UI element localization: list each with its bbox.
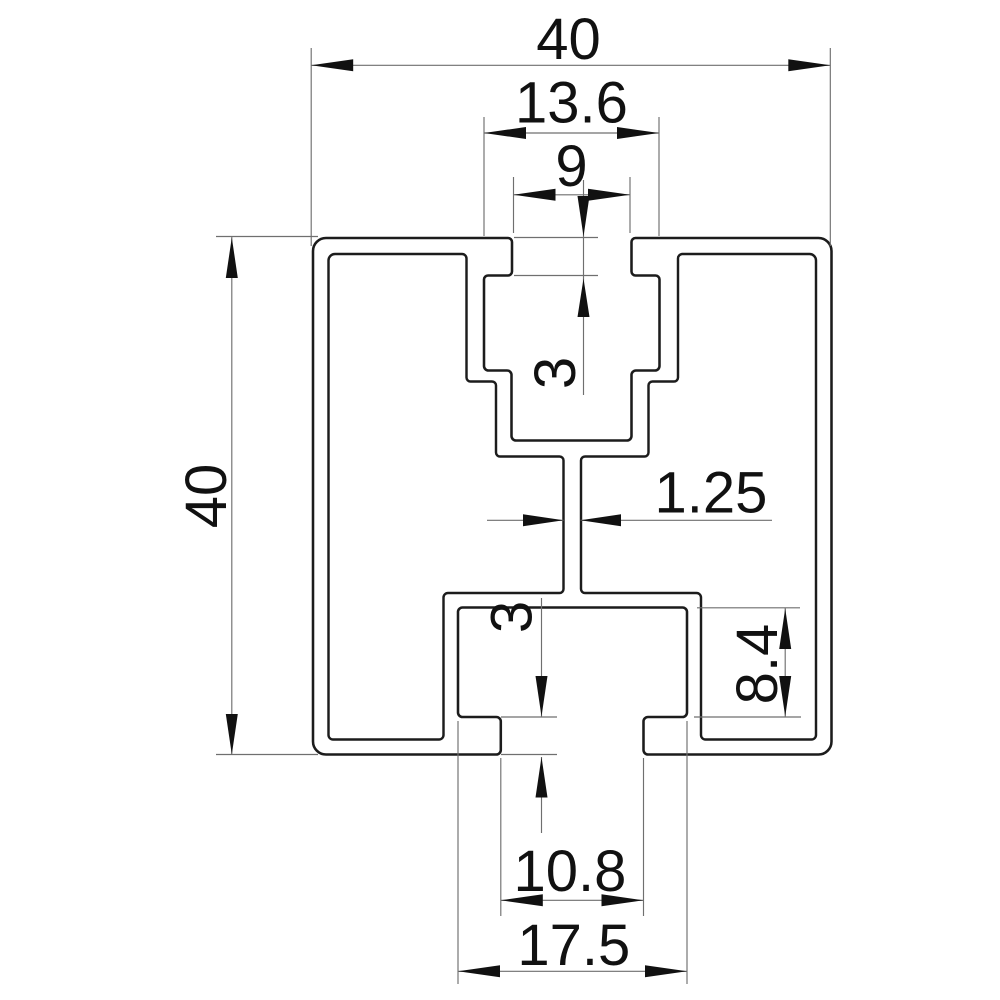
arrow 17.5 left xyxy=(458,965,500,977)
arrow 1.25 left xyxy=(523,514,564,526)
arrow 9 right xyxy=(588,189,630,201)
dim line 17.5 xyxy=(458,970,687,972)
ext line 13.6 left xyxy=(483,117,485,236)
ext line 10.8 left xyxy=(500,758,502,916)
arrow 3-bottom down xyxy=(536,676,548,717)
svg-text:40: 40 xyxy=(536,7,601,72)
svg-text:3: 3 xyxy=(523,357,588,389)
ext line 10.8 right xyxy=(643,758,645,916)
arrow 10.8 left xyxy=(501,894,543,906)
svg-text:9: 9 xyxy=(555,134,587,199)
dim line 10.8 xyxy=(501,899,644,901)
svg-text:40: 40 xyxy=(174,464,239,529)
ext line 3-top lower xyxy=(514,275,598,277)
arrow 1.25 right xyxy=(581,514,622,526)
arrow 8.4 up xyxy=(779,609,791,650)
dimension texts xyxy=(174,7,790,978)
svg-text:13.6: 13.6 xyxy=(515,71,628,136)
dim tail 1.25 right xyxy=(581,519,773,521)
ext line 9 right xyxy=(629,177,631,233)
svg-text:3: 3 xyxy=(480,601,545,633)
dim line 8.4 vertical xyxy=(784,608,786,717)
ext line 9 left xyxy=(513,177,515,233)
arrow 10.8 right xyxy=(602,894,644,906)
arrow 8.4 down xyxy=(779,676,791,717)
arrow 3-top down xyxy=(578,196,590,237)
ext line 3-bottom upper xyxy=(501,716,557,718)
inner hollow chamber right xyxy=(581,254,816,740)
ext line 17.5 right xyxy=(686,721,688,984)
arrow 40-top left xyxy=(311,59,353,71)
ext line 40-left top xyxy=(216,236,318,238)
arrow 3-bottom up xyxy=(536,757,548,798)
ext line 17.5 left xyxy=(457,721,459,984)
arrow 3-top up xyxy=(578,279,590,318)
arrow 17.5 right xyxy=(645,965,687,977)
dim line 3-bottom lower tail xyxy=(541,757,543,833)
svg-text:8.4: 8.4 xyxy=(725,624,790,705)
dim line 40-left xyxy=(231,237,233,755)
ext line 8.4 top xyxy=(697,607,800,609)
dim line 3-top vertical xyxy=(583,180,585,395)
ext line 40-top left xyxy=(310,48,312,246)
ext line 3-bottom lower xyxy=(501,754,557,756)
svg-text:10.8: 10.8 xyxy=(514,839,627,904)
svg-text:17.5: 17.5 xyxy=(517,913,630,978)
ext line 8.4 bottom xyxy=(694,716,801,718)
dim line 9 xyxy=(514,194,631,196)
arrow 40-top right xyxy=(788,59,830,71)
dim tail 1.25 left xyxy=(487,519,564,521)
arrow 40-left bottom xyxy=(226,714,238,755)
extrusion profile outer contour xyxy=(313,238,832,755)
arrow 13.6 left xyxy=(484,127,526,139)
arrow 40-left top xyxy=(226,238,238,279)
ext line 40-top right xyxy=(829,48,831,246)
arrow 9 left xyxy=(514,189,556,201)
dim line 3-bottom upper part xyxy=(541,598,543,717)
ext line 40-left bottom xyxy=(216,754,318,756)
dim line 40-top xyxy=(311,64,830,66)
arrowheads xyxy=(226,59,831,977)
dim line 13.6 xyxy=(484,132,659,134)
svg-text:1.25: 1.25 xyxy=(655,461,768,526)
thin extension and dimension lines xyxy=(216,48,830,984)
ext line 3-top upper xyxy=(514,237,598,239)
inner hollow chamber left xyxy=(329,254,564,740)
ext line 13.6 right xyxy=(658,117,660,236)
arrow 13.6 right xyxy=(617,127,659,139)
